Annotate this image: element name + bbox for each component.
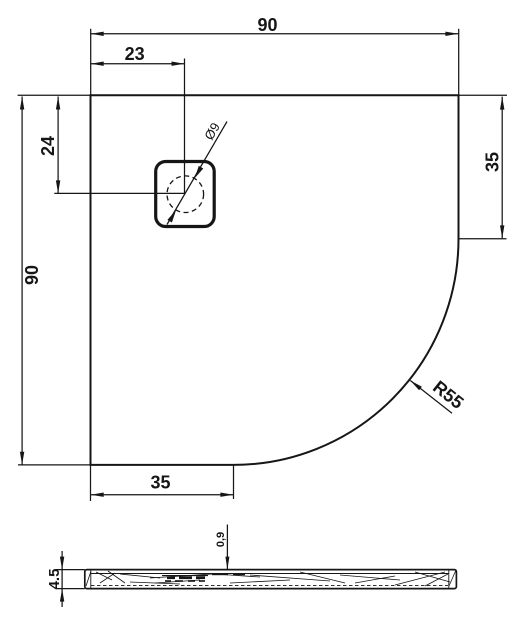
svg-text:35: 35	[150, 473, 170, 493]
svg-text:35: 35	[483, 152, 503, 172]
svg-text:0,9: 0,9	[215, 532, 227, 547]
svg-text:R55: R55	[429, 377, 467, 413]
svg-text:23: 23	[125, 44, 145, 64]
svg-text:90: 90	[257, 15, 277, 35]
svg-text:90: 90	[22, 265, 42, 285]
svg-text:4.5: 4.5	[46, 569, 63, 590]
svg-text:24: 24	[38, 136, 58, 156]
